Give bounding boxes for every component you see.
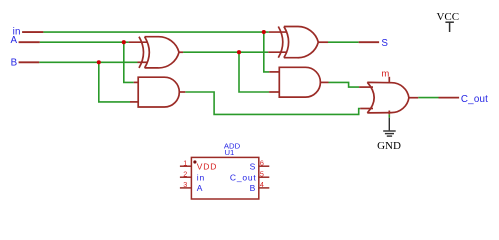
or gate OR1 (359, 77, 418, 115)
and gate AND2 (269, 67, 328, 97)
junction node on in wire (262, 30, 266, 34)
wire net A vertical drop to AND1 (124, 42, 134, 82)
xor gate XOR2 (268, 26, 328, 57)
svg-text:S: S (381, 38, 388, 49)
wire net XOR2 output to S (328, 41, 359, 43)
wire net XOR1 output to XOR2 (183, 51, 268, 53)
pin-1 marker dot of U1 (193, 160, 196, 163)
wire net AND2 output to OR top input (329, 82, 360, 87)
xor gate XOR1 (129, 37, 184, 68)
pin stub of port A (19, 41, 40, 43)
svg-text:m: m (381, 68, 389, 79)
pin 6 of U1 (S) (259, 165, 270, 167)
svg-text:U1: U1 (225, 148, 235, 157)
wire net XOR1 output drop to AND2 (239, 52, 269, 92)
svg-text:2: 2 (183, 169, 187, 178)
wire net B vertical drop to AND1 (99, 62, 130, 102)
svg-text:C_out: C_out (230, 172, 257, 182)
pin 5 of U1 (C_out) (259, 176, 270, 178)
svg-text:3: 3 (183, 180, 187, 189)
junction node on B wire (97, 60, 101, 64)
wire net OR gnd pin to GND (388, 114, 390, 117)
svg-text:5: 5 (260, 169, 264, 178)
pin stub of port S (359, 41, 379, 43)
svg-text:6: 6 (260, 159, 264, 168)
pin 3 of U1 (A) (180, 187, 192, 189)
pin 4 of U1 (B) (259, 187, 270, 189)
pin 1 of U1 (VDD) (180, 165, 192, 167)
svg-text:GND: GND (377, 140, 401, 152)
svg-text:B: B (11, 58, 18, 69)
pin stub of port C_out (439, 97, 460, 99)
pin stub of port B (19, 61, 40, 63)
power symbol VCC (445, 22, 454, 32)
svg-text:VDD: VDD (197, 161, 217, 171)
ground symbol GND (383, 118, 396, 136)
wire net AND1 output to OR bottom input (185, 92, 360, 114)
pin 2 of U1 (in) (180, 176, 192, 178)
svg-text:VCC: VCC (436, 11, 459, 23)
and gate AND1 (130, 77, 185, 107)
pin stub of port in (22, 31, 43, 33)
svg-text:A: A (197, 183, 203, 193)
svg-text:in: in (197, 172, 205, 182)
wire net B horizontal (39, 61, 137, 63)
svg-text:C_out: C_out (461, 94, 488, 105)
svg-text:1: 1 (183, 159, 187, 168)
wire net A horizontal (40, 41, 129, 43)
wire net in horizontal (43, 31, 268, 33)
junction node on XOR1 output wire (237, 50, 241, 54)
svg-text:A: A (10, 35, 17, 46)
junction node on A wire (122, 40, 126, 44)
wire net OR output to C_out (418, 97, 438, 99)
svg-text:S: S (250, 161, 256, 171)
wire net in vertical drop to AND2 (264, 32, 270, 72)
svg-text:B: B (250, 183, 256, 193)
svg-text:4: 4 (260, 180, 264, 189)
component U1 ADD box (191, 157, 258, 199)
